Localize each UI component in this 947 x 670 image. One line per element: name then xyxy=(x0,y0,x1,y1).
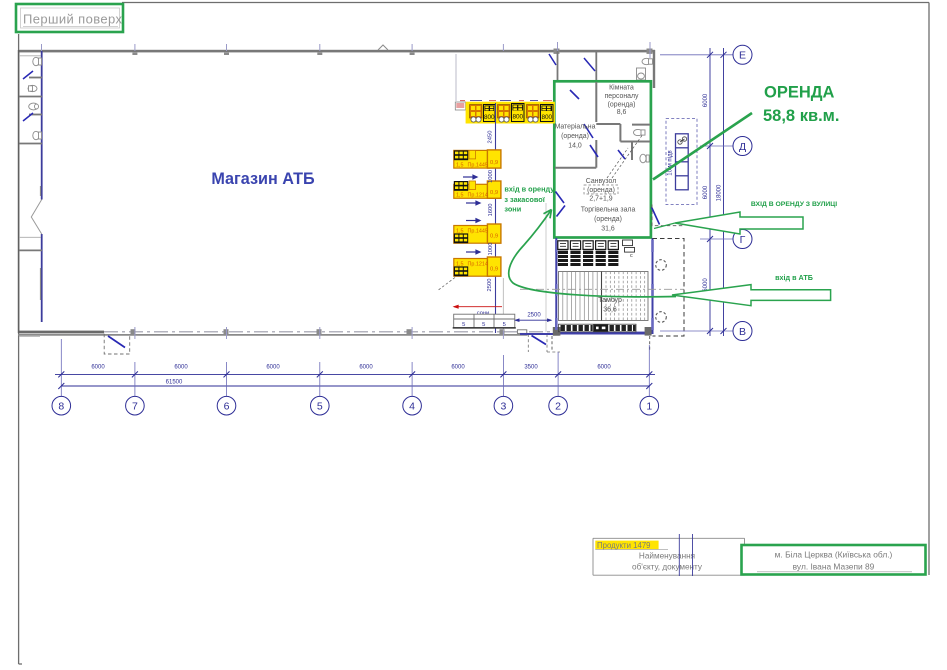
svg-text:вхід в оренду: вхід в оренду xyxy=(504,185,555,194)
room texts rental xyxy=(555,84,639,195)
toilet fixtures left strip xyxy=(28,57,42,139)
svg-text:14,0: 14,0 xyxy=(568,143,582,150)
svg-text:5: 5 xyxy=(462,322,465,328)
svg-text:Торгівельна зала: Торгівельна зала xyxy=(581,206,636,214)
door swings left rooms xyxy=(23,71,33,121)
svg-text:2500: 2500 xyxy=(487,279,493,292)
svg-text:36,6: 36,6 xyxy=(603,307,617,314)
svg-text:м. Біла Церква (Київська обл.): м. Біла Церква (Київська обл.) xyxy=(775,550,893,560)
svg-text:7: 7 xyxy=(132,401,138,413)
svg-text:5: 5 xyxy=(482,322,485,328)
title block xyxy=(593,538,745,575)
svg-text:ВХІД В ОРЕНДУ З ВУЛИЦІ: ВХІД В ОРЕНДУ З ВУЛИЦІ xyxy=(751,201,837,208)
svg-text:6000: 6000 xyxy=(91,365,105,371)
entrance porch bottom-left dashed xyxy=(104,334,130,354)
arrow 1 xyxy=(463,175,477,179)
svg-text:Матеріальна: Матеріальна xyxy=(555,123,596,131)
store right separating wall xyxy=(558,51,597,80)
svg-text:1,5: 1,5 xyxy=(456,193,464,199)
svg-text:1,5: 1,5 xyxy=(456,262,464,268)
10m dashed box right xyxy=(666,119,697,205)
cash row extension line xyxy=(455,54,457,101)
svg-text:800: 800 xyxy=(541,114,552,121)
address green box xyxy=(742,545,926,575)
svg-text:(оренда): (оренда) xyxy=(608,101,636,108)
svg-text:18000: 18000 xyxy=(717,184,723,201)
title box "Перший поверх" xyxy=(16,4,123,32)
navy guide vertical line xyxy=(495,103,497,333)
svg-text:1,5: 1,5 xyxy=(456,229,464,235)
svg-text:31,6: 31,6 xyxy=(601,226,615,233)
800 boxes top row xyxy=(484,104,554,122)
building left wall xyxy=(18,50,20,333)
svg-text:Пр.1214: Пр.1214 xyxy=(468,262,488,268)
horizontal connectors to circles xyxy=(660,55,733,331)
svg-text:Пр.1214: Пр.1214 xyxy=(468,193,488,199)
svg-text:2500: 2500 xyxy=(527,313,541,319)
rental door swings blue xyxy=(556,90,660,225)
svg-text:Пр.1445: Пр.1445 xyxy=(468,229,488,235)
rental area green outline xyxy=(554,81,651,237)
svg-text:1000: 1000 xyxy=(488,170,494,183)
red dimension line xyxy=(454,305,502,308)
svg-text:5: 5 xyxy=(317,401,323,413)
svg-text:61500: 61500 xyxy=(166,380,183,386)
porch door swing xyxy=(108,336,125,348)
svg-text:0,9: 0,9 xyxy=(490,160,498,166)
svg-text:800: 800 xyxy=(512,114,523,121)
bottom dim labels xyxy=(91,365,611,386)
svg-text:з закасової: з закасової xyxy=(504,195,545,204)
svg-text:Кімната: Кімната xyxy=(609,84,634,92)
svg-text:Найменування: Найменування xyxy=(639,552,695,561)
axis circles right xyxy=(733,45,752,340)
caster wheels xyxy=(471,117,538,122)
blue door jambs tambour xyxy=(556,240,652,330)
svg-text:10 м підв: 10 м підв xyxy=(668,150,674,175)
wc fixture top-right xyxy=(637,58,653,80)
svg-text:0,9: 0,9 xyxy=(490,234,498,240)
svg-text:3: 3 xyxy=(500,401,506,413)
ATB entrance arrow outline xyxy=(672,285,831,306)
entry-from-checkout label xyxy=(504,185,555,214)
svg-text:Магазин АТБ: Магазин АТБ xyxy=(211,170,315,188)
svg-text:4: 4 xyxy=(409,401,415,413)
svg-text:с: с xyxy=(630,253,633,259)
column marks on walls xyxy=(131,49,653,336)
svg-text:3500: 3500 xyxy=(524,365,538,371)
svg-text:6000: 6000 xyxy=(703,185,709,199)
arrows 2,3 xyxy=(466,201,480,222)
extension verticals to circles xyxy=(61,339,649,397)
svg-text:6000: 6000 xyxy=(359,365,373,371)
svg-text:Д: Д xyxy=(739,141,746,153)
svg-text:6000: 6000 xyxy=(174,365,188,371)
dashed leaders санвузол xyxy=(607,134,643,178)
rental interior wall vertical (материальна/кімната) xyxy=(555,82,650,168)
svg-text:Продукти 1479: Продукти 1479 xyxy=(597,541,651,550)
axis circles bottom xyxy=(52,396,659,415)
tambour bottom wall band xyxy=(553,332,647,335)
svg-text:2: 2 xyxy=(555,401,561,413)
exit opening details bottom center xyxy=(517,330,526,334)
svg-text:8: 8 xyxy=(58,401,64,413)
svg-text:5: 5 xyxy=(503,322,506,328)
svg-text:1,5: 1,5 xyxy=(456,163,464,169)
svg-text:6: 6 xyxy=(224,401,230,413)
svg-text:(оренда): (оренда) xyxy=(587,187,615,194)
top wall vent mark xyxy=(378,45,388,50)
right tick slashes xyxy=(707,52,727,334)
svg-text:(оренда): (оренда) xyxy=(594,216,622,223)
bottom dimension line 1 xyxy=(55,374,655,386)
svg-text:2,7+1,9: 2,7+1,9 xyxy=(589,196,612,203)
svg-text:6000: 6000 xyxy=(597,365,611,371)
dashed porch right of rental xyxy=(652,205,684,226)
svg-text:Е: Е xyxy=(739,50,746,62)
tambour mat grate xyxy=(559,272,649,321)
rotated dim labels cash lane xyxy=(487,131,494,292)
svg-text:ОРЕНДА: ОРЕНДА xyxy=(764,84,835,102)
cash block 2 xyxy=(454,181,501,199)
yellow highlight Продукти xyxy=(595,541,658,550)
tick slashes dim line 1 xyxy=(58,371,652,389)
toilet room walls left xyxy=(19,78,42,251)
red ticks above row xyxy=(460,100,552,101)
svg-text:0,9: 0,9 xyxy=(490,267,498,273)
svg-text:58,8 кв.м.: 58,8 кв.м. xyxy=(763,107,839,125)
svg-text:800: 800 xyxy=(484,114,495,121)
navy verticals through title block xyxy=(679,534,692,576)
arrow 4 xyxy=(466,250,480,254)
axis dash line through tambour xyxy=(520,288,684,290)
svg-text:вхід в АТБ: вхід в АТБ xyxy=(775,273,813,282)
entrance comb xyxy=(561,325,636,331)
svg-text:6000: 6000 xyxy=(451,365,465,371)
svg-text:8,6: 8,6 xyxy=(617,109,627,116)
right vertical dimension lines xyxy=(710,48,724,336)
tambour navy walls xyxy=(520,238,653,334)
leader line to rental xyxy=(653,113,752,180)
svg-text:1: 1 xyxy=(646,401,652,413)
building bottom wall xyxy=(18,331,104,334)
svg-text:Пр.1445: Пр.1445 xyxy=(468,163,488,169)
ladder symbol xyxy=(676,134,689,190)
cash block 1 xyxy=(454,150,501,169)
street entrance arrow outline xyxy=(675,212,803,234)
svg-text:зони: зони xyxy=(504,205,521,214)
big curve arrow to rental door xyxy=(509,210,676,297)
dashed leader from block 4 xyxy=(437,278,455,292)
sanitary fixtures rental xyxy=(634,129,650,162)
dashed frame around оренда label xyxy=(584,185,618,194)
svg-text:Перший поверх: Перший поверх xyxy=(23,12,123,27)
svg-text:1000: 1000 xyxy=(488,243,494,256)
svg-text:2450: 2450 xyxy=(488,131,494,144)
right rotated labels xyxy=(703,93,723,292)
checkout top row yellow band xyxy=(455,100,555,124)
building top wall xyxy=(18,50,655,53)
svg-text:6000: 6000 xyxy=(703,93,709,107)
cash block 4 xyxy=(454,257,501,276)
building right wall top part xyxy=(653,50,655,88)
svg-text:(оренда): (оренда) xyxy=(561,133,589,140)
shopping carts row xyxy=(558,240,635,266)
dashed structure right of tambour xyxy=(653,239,685,337)
door chevron in service strip xyxy=(31,200,41,235)
svg-text:Санвузол: Санвузол xyxy=(586,178,616,185)
svg-text:персоналу: персоналу xyxy=(605,93,639,100)
cash block 3 xyxy=(454,224,501,243)
svg-text:0,9: 0,9 xyxy=(490,190,498,196)
light axis ticks crossing walls xyxy=(42,42,651,339)
interior navy wall left service strip xyxy=(41,51,43,322)
svg-text:1600: 1600 xyxy=(488,204,494,217)
bicycle icon in ladder xyxy=(678,137,687,144)
svg-text:вул. Івана Мазепи 89: вул. Івана Мазепи 89 xyxy=(793,562,875,572)
svg-text:Г: Г xyxy=(740,234,746,246)
svg-text:6000: 6000 xyxy=(266,365,280,371)
svg-text:В: В xyxy=(739,326,746,338)
dashed columns xyxy=(656,260,667,323)
door swing top-right room xyxy=(549,54,595,71)
